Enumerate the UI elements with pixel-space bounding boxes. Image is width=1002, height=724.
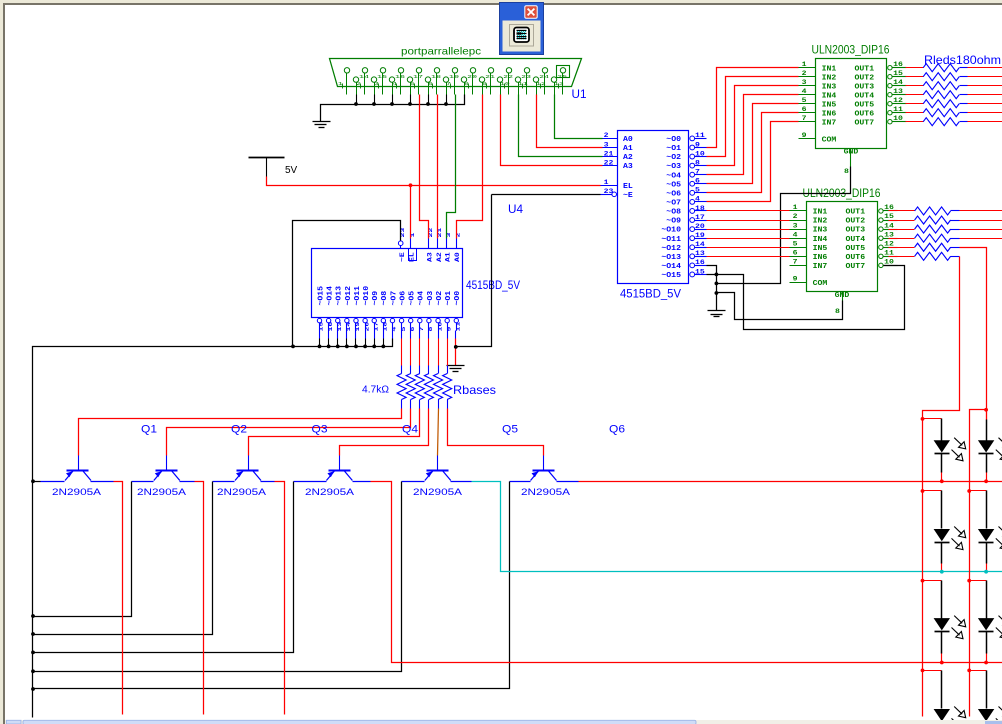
svg-text:1: 1	[793, 204, 798, 211]
svg-text:6: 6	[695, 178, 700, 185]
svg-text:~O3: ~O3	[427, 291, 435, 306]
svg-text:9: 9	[445, 327, 452, 332]
svg-text:19: 19	[449, 74, 459, 80]
svg-text:~O0: ~O0	[454, 291, 462, 306]
svg-text:A3: A3	[623, 163, 633, 171]
svg-text:24: 24	[539, 74, 549, 80]
svg-text:IN5: IN5	[822, 101, 837, 109]
svg-text:Rleds180ohm: Rleds180ohm	[924, 53, 1001, 67]
svg-text:9: 9	[802, 132, 807, 139]
svg-text:2N2905A: 2N2905A	[413, 487, 463, 498]
svg-text:2N2905A: 2N2905A	[52, 487, 102, 498]
svg-text:2N2905A: 2N2905A	[217, 487, 267, 498]
svg-text:9: 9	[482, 81, 487, 87]
svg-text:~O11: ~O11	[661, 236, 681, 244]
svg-text:5: 5	[410, 81, 415, 87]
svg-text:IN2: IN2	[822, 74, 837, 82]
svg-text:9: 9	[695, 141, 700, 148]
svg-text:4: 4	[392, 81, 397, 87]
svg-text:13: 13	[554, 81, 564, 87]
svg-text:12: 12	[893, 97, 903, 104]
svg-text:~O14: ~O14	[327, 285, 335, 305]
svg-text:11: 11	[695, 132, 705, 139]
svg-text:8: 8	[695, 159, 700, 166]
svg-text:3: 3	[793, 222, 798, 229]
svg-text:6: 6	[793, 250, 798, 257]
svg-text:2: 2	[793, 213, 798, 220]
svg-text:Rbases: Rbases	[453, 383, 496, 397]
svg-text:20: 20	[467, 74, 477, 80]
svg-text:13: 13	[336, 321, 343, 332]
svg-text:15: 15	[884, 213, 894, 220]
svg-text:16: 16	[695, 259, 705, 266]
svg-text:~O6: ~O6	[399, 291, 407, 306]
svg-text:3: 3	[604, 141, 609, 148]
svg-text:~O7: ~O7	[390, 291, 398, 306]
svg-text:A0: A0	[623, 136, 633, 144]
svg-text:~O5: ~O5	[666, 181, 681, 189]
svg-text:7: 7	[802, 115, 807, 122]
svg-text:23: 23	[521, 74, 531, 80]
svg-text:~O2: ~O2	[436, 291, 444, 306]
svg-text:11: 11	[455, 321, 462, 332]
svg-text:23: 23	[604, 188, 614, 195]
svg-text:10: 10	[893, 115, 903, 122]
svg-text:~O10: ~O10	[661, 227, 681, 235]
svg-text:6: 6	[409, 327, 416, 332]
svg-text:A3: A3	[427, 252, 435, 262]
svg-text:~O9: ~O9	[372, 291, 380, 306]
svg-text:4: 4	[695, 196, 700, 203]
svg-text:~O11: ~O11	[354, 285, 362, 305]
svg-text:IN1: IN1	[822, 65, 837, 73]
svg-text:~O13: ~O13	[661, 254, 681, 262]
svg-text:Q4: Q4	[402, 424, 418, 436]
svg-text:2N2905A: 2N2905A	[137, 487, 187, 498]
svg-text:11: 11	[518, 81, 528, 87]
svg-text:7: 7	[695, 168, 700, 175]
svg-text:~O0: ~O0	[666, 136, 681, 144]
svg-text:A1: A1	[623, 145, 634, 153]
svg-text:12: 12	[884, 240, 894, 247]
svg-text:17: 17	[695, 214, 705, 221]
svg-text:COM: COM	[813, 280, 828, 288]
svg-text:16: 16	[395, 74, 405, 80]
svg-text:~O12: ~O12	[345, 286, 353, 306]
svg-text:IN2: IN2	[813, 218, 828, 226]
svg-text:OUT1: OUT1	[846, 209, 866, 217]
svg-text:10: 10	[500, 81, 510, 87]
svg-text:Q2: Q2	[231, 424, 247, 436]
svg-text:14: 14	[345, 321, 352, 332]
svg-text:U1: U1	[572, 89, 587, 101]
svg-text:A2: A2	[623, 154, 633, 162]
svg-text:OUT4: OUT4	[855, 92, 875, 100]
svg-text:A2: A2	[436, 252, 444, 262]
svg-text:13: 13	[695, 250, 705, 257]
svg-text:IN6: IN6	[822, 110, 837, 118]
svg-text:2N2905A: 2N2905A	[521, 487, 571, 498]
svg-text:Q1: Q1	[141, 424, 157, 436]
svg-text:8: 8	[835, 308, 840, 315]
svg-text:~O5: ~O5	[409, 291, 417, 306]
svg-text:Q3: Q3	[312, 424, 328, 436]
svg-text:9: 9	[793, 275, 798, 282]
svg-text:2: 2	[454, 233, 461, 238]
svg-text:14: 14	[695, 241, 705, 248]
svg-text:Q6: Q6	[609, 424, 625, 436]
svg-text:15: 15	[695, 268, 705, 275]
svg-text:IN3: IN3	[822, 83, 837, 91]
svg-text:21: 21	[485, 74, 495, 80]
svg-text:IN3: IN3	[813, 227, 828, 235]
svg-text:4: 4	[793, 231, 798, 238]
svg-text:25: 25	[557, 74, 567, 80]
svg-text:15: 15	[318, 321, 325, 332]
svg-text:5: 5	[802, 97, 807, 104]
svg-text:5: 5	[793, 240, 798, 247]
svg-text:portparrallelepc: portparrallelepc	[401, 46, 481, 58]
svg-text:2: 2	[356, 81, 361, 87]
svg-text:6: 6	[802, 106, 807, 113]
svg-text:15: 15	[893, 70, 903, 77]
svg-text:19: 19	[354, 322, 361, 332]
svg-text:7: 7	[793, 259, 798, 266]
svg-text:13: 13	[884, 231, 894, 238]
svg-text:~O13: ~O13	[336, 286, 344, 306]
svg-text:OUT4: OUT4	[846, 236, 866, 244]
svg-text:1: 1	[802, 61, 807, 68]
svg-text:OUT6: OUT6	[855, 110, 875, 118]
svg-text:U4: U4	[508, 204, 524, 216]
svg-text:~O12: ~O12	[661, 245, 681, 253]
svg-text:22: 22	[604, 159, 614, 166]
svg-text:A1: A1	[445, 252, 453, 262]
svg-text:2: 2	[604, 132, 609, 139]
svg-text:~O9: ~O9	[666, 218, 681, 226]
svg-text:IN7: IN7	[822, 119, 837, 127]
svg-text:3: 3	[802, 79, 807, 86]
svg-text:16: 16	[893, 61, 903, 68]
svg-text:14: 14	[884, 222, 894, 229]
svg-text:14: 14	[893, 79, 903, 86]
svg-text:18: 18	[431, 74, 441, 80]
svg-text:5: 5	[695, 187, 700, 194]
svg-text:~O8: ~O8	[666, 209, 681, 217]
svg-text:5V: 5V	[285, 165, 298, 176]
svg-text:3: 3	[374, 81, 379, 87]
svg-text:OUT3: OUT3	[846, 227, 866, 235]
svg-text:~O8: ~O8	[381, 291, 389, 306]
svg-text:8: 8	[464, 81, 469, 87]
svg-text:18: 18	[382, 321, 389, 332]
svg-text:Q5: Q5	[502, 424, 518, 436]
svg-text:20: 20	[695, 223, 705, 230]
svg-text:2N2905A: 2N2905A	[305, 487, 355, 498]
svg-text:OUT5: OUT5	[855, 101, 875, 109]
svg-text:COM: COM	[822, 137, 837, 145]
svg-text:15: 15	[377, 74, 387, 80]
svg-text:OUT5: OUT5	[846, 245, 866, 253]
svg-text:21: 21	[604, 150, 614, 157]
svg-text:4: 4	[802, 88, 807, 95]
svg-text:OUT7: OUT7	[855, 119, 875, 127]
svg-text:8: 8	[844, 168, 849, 175]
svg-text:20: 20	[363, 322, 370, 332]
svg-text:10: 10	[436, 322, 443, 332]
svg-text:~O10: ~O10	[363, 286, 371, 306]
svg-text:~O14: ~O14	[661, 263, 681, 271]
svg-text:A0: A0	[454, 252, 462, 262]
svg-text:17: 17	[372, 322, 379, 332]
svg-text:~E: ~E	[623, 192, 634, 200]
svg-text:IN4: IN4	[813, 236, 828, 244]
svg-text:1: 1	[338, 81, 343, 87]
svg-text:~O6: ~O6	[666, 190, 681, 198]
svg-text:OUT2: OUT2	[855, 74, 875, 82]
svg-text:7: 7	[446, 81, 451, 87]
svg-text:4515BD_5V: 4515BD_5V	[620, 289, 681, 301]
svg-text:17: 17	[413, 74, 423, 80]
svg-text:4.7kΩ: 4.7kΩ	[362, 385, 390, 396]
svg-text:~O4: ~O4	[418, 290, 426, 305]
svg-text:OUT2: OUT2	[846, 218, 866, 226]
svg-text:OUT3: OUT3	[855, 83, 875, 91]
svg-text:~O3: ~O3	[666, 163, 681, 171]
svg-text:11: 11	[884, 250, 894, 257]
svg-text:ULN2003_DIP16: ULN2003_DIP16	[812, 45, 890, 57]
svg-text:IN5: IN5	[813, 245, 828, 253]
svg-text:6: 6	[428, 81, 433, 87]
svg-text:14: 14	[359, 74, 369, 80]
svg-text:IN4: IN4	[822, 92, 837, 100]
svg-text:OUT7: OUT7	[846, 263, 866, 271]
svg-text:1: 1	[604, 179, 609, 186]
svg-text:~O15: ~O15	[317, 286, 325, 306]
svg-text:4515BD_5V: 4515BD_5V	[466, 280, 520, 292]
svg-text:IN6: IN6	[813, 254, 828, 262]
svg-text:IN7: IN7	[813, 263, 828, 271]
svg-text:12: 12	[536, 81, 546, 87]
svg-text:~O1: ~O1	[666, 145, 681, 153]
svg-text:2: 2	[802, 70, 807, 77]
svg-text:19: 19	[695, 232, 705, 239]
svg-text:GND: GND	[835, 292, 850, 300]
svg-text:OUT6: OUT6	[846, 254, 866, 262]
svg-text:~O1: ~O1	[445, 290, 453, 305]
svg-text:~O4: ~O4	[666, 172, 681, 180]
svg-text:10: 10	[695, 150, 705, 157]
svg-text:22: 22	[503, 74, 513, 80]
svg-text:OUT1: OUT1	[855, 65, 875, 73]
svg-text:11: 11	[893, 106, 903, 113]
svg-text:16: 16	[327, 322, 334, 332]
svg-text:IN1: IN1	[813, 209, 828, 217]
svg-text:~O15: ~O15	[661, 272, 681, 280]
svg-text:10: 10	[884, 259, 894, 266]
svg-text:13: 13	[893, 88, 903, 95]
svg-text:~O2: ~O2	[666, 154, 681, 162]
svg-text:~E: ~E	[399, 252, 407, 262]
svg-text:18: 18	[695, 205, 705, 212]
svg-text:~O7: ~O7	[666, 199, 681, 207]
svg-text:EL: EL	[623, 183, 633, 191]
